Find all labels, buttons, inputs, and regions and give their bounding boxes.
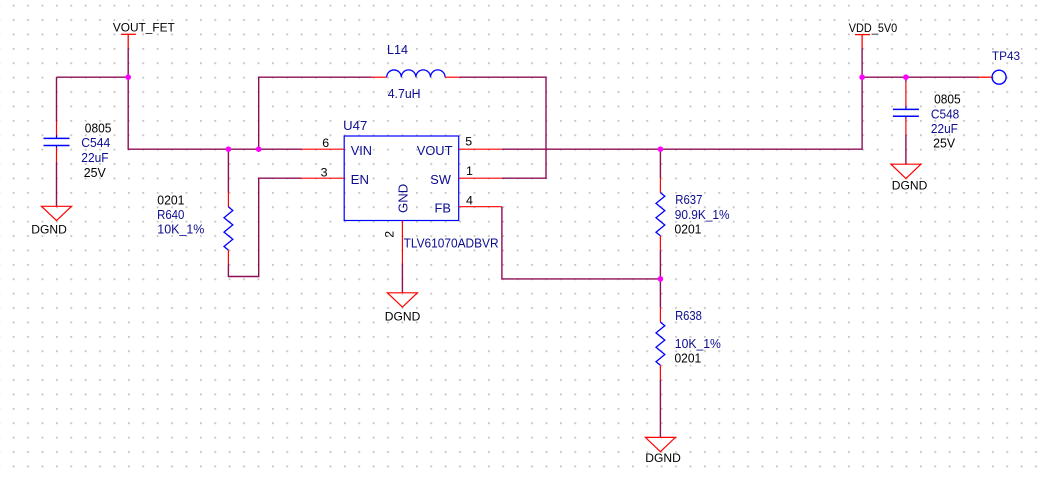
junction node A [125,74,131,80]
svg-text:5: 5 [465,135,472,149]
wire VOUT line to VDD corner [502,77,862,149]
svg-text:EN: EN [351,172,369,187]
wire FB return [502,207,661,279]
junction C548 node [903,74,909,80]
svg-text:DGND: DGND [892,179,928,193]
value label R638 block [675,308,721,365]
ground DGND C548 [891,164,927,193]
svg-text:C548: C548 [931,106,959,121]
wire node A to C544 [57,76,129,78]
svg-text:R637: R637 [675,192,702,207]
junction R640 top [226,146,232,152]
op-amp U1 : ic U47 body [344,136,459,221]
junction VDD node [859,74,865,80]
value label C548 block [931,91,961,150]
svg-text:3: 3 [321,165,328,179]
wire GND pin to ground [401,264,403,293]
test point TP43 [992,70,1006,84]
svg-text:0201: 0201 [157,193,184,208]
svg-text:22uF: 22uF [931,121,958,136]
wire TP43 stub [979,76,992,78]
svg-text:SW: SW [430,172,451,187]
svg-text:4: 4 [466,194,473,208]
svg-text:10K_1%: 10K_1% [675,336,721,351]
svg-text:FB: FB [435,200,451,215]
value label C544 block [81,120,111,180]
svg-text:VIN: VIN [351,143,372,158]
svg-text:2: 2 [383,231,397,238]
value label R637 block [675,192,730,236]
svg-text:0805: 0805 [85,120,112,135]
resistor R637 [656,178,665,250]
wire C548 bottom [905,135,907,164]
wire R640 top [227,149,229,192]
svg-text:1: 1 [466,164,473,178]
svg-text:U47: U47 [343,118,367,133]
wire C548 top [905,77,907,82]
ground DGND R638 [645,437,681,464]
ground DGND U47 [385,293,421,324]
wire L14 branch up [259,77,372,149]
svg-text:25V: 25V [933,136,955,151]
svg-text:4.7uH: 4.7uH [388,86,421,101]
svg-text:TLV61070ADBVR: TLV61070ADBVR [404,236,499,251]
pin EN stub [301,177,344,179]
svg-text:6: 6 [322,136,329,150]
junction L14 branch [256,146,262,152]
pin VOUT stub [459,148,502,150]
wire L14 to SW [460,77,546,178]
wire VDD_5V0 drop [861,48,863,78]
svg-text:VDD_5V0: VDD_5V0 [849,21,897,35]
wire R638 top [659,279,661,308]
pin SW stub [459,177,502,179]
svg-text:R638: R638 [675,308,702,323]
wire R637 top [659,149,661,178]
svg-text:0201: 0201 [675,351,702,366]
svg-text:DGND: DGND [385,310,421,324]
capacitor C544 [44,121,70,162]
svg-text:VOUT: VOUT [417,143,453,158]
svg-text:VOUT_FET: VOUT_FET [113,21,175,35]
svg-text:L14: L14 [387,42,408,57]
pin VIN stub [302,148,344,150]
resistor R640 [224,193,233,265]
svg-text:22uF: 22uF [81,150,108,165]
wire C544 top [56,77,58,121]
capacitor C548 [893,82,919,135]
junction R637 top [658,146,664,152]
svg-text:90.9K_1%: 90.9K_1% [675,207,730,222]
svg-text:0805: 0805 [934,91,961,106]
wire node A down to VIN line [128,77,302,149]
value label R640 block [157,193,204,237]
pin GND stub [401,221,403,264]
svg-text:10K_1%: 10K_1% [157,222,204,237]
wire R637 bottom [659,250,661,279]
net label VDD_5V0 [849,21,897,48]
svg-text:GND: GND [395,184,410,213]
svg-text:TP43: TP43 [992,49,1020,63]
junction FB node [658,276,664,282]
svg-text:DGND: DGND [645,451,681,465]
wire C544 bottom [56,162,58,206]
wire VOUT_FET to node A [127,48,129,78]
svg-text:0201: 0201 [675,221,702,236]
resistor R638 [656,308,665,380]
inductor L14 [372,70,460,77]
svg-text:C544: C544 [81,135,110,150]
svg-text:R640: R640 [157,207,184,222]
wire VDD node to TP43 [862,76,979,78]
net label VOUT_FET [113,21,175,48]
svg-text:DGND: DGND [31,223,67,237]
wire R640 bottom to EN [228,178,301,276]
pin FB stub [459,206,502,208]
svg-text:25V: 25V [84,165,106,180]
wire R638 bottom [659,380,661,438]
ground DGND C544 [31,206,71,236]
